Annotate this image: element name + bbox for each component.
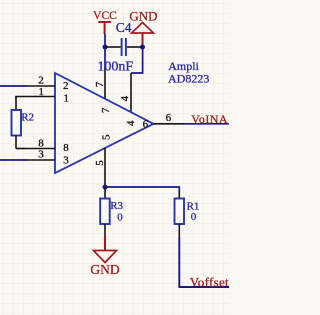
op-amp U1 pin 8	[27, 138, 69, 155]
svg-text:0: 0	[191, 211, 197, 223]
junction at GND / C4 right	[140, 45, 145, 50]
wire to pin 2	[0, 85, 27, 87]
svg-text:2: 2	[38, 74, 44, 86]
op-amp U1 pin 5	[94, 134, 113, 187]
svg-text:5: 5	[94, 160, 106, 166]
wire R1 to Voffset	[179, 238, 229, 288]
svg-text:7: 7	[94, 81, 106, 87]
svg-text:AD8223: AD8223	[168, 72, 209, 86]
svg-text:7: 7	[100, 107, 112, 113]
svg-text:Voffset: Voffset	[190, 275, 229, 290]
svg-text:3: 3	[38, 149, 44, 161]
op-amp U1 pin 1	[27, 86, 69, 105]
svg-text:0: 0	[117, 212, 123, 224]
svg-text:100nF: 100nF	[97, 60, 133, 75]
power port VCC	[93, 10, 117, 34]
svg-text:VCC: VCC	[93, 10, 117, 22]
svg-text:4: 4	[125, 120, 137, 126]
resistor R2	[12, 97, 22, 149]
wire to pin 3	[0, 159, 27, 161]
svg-text:3: 3	[63, 154, 69, 166]
svg-text:R2: R2	[21, 111, 34, 123]
junction pin 5 / R3 / R1	[103, 185, 108, 190]
svg-text:1: 1	[39, 86, 45, 98]
wire R2 to pin 8	[16, 148, 27, 150]
power port GND (top)	[129, 9, 157, 47]
power port GND (bottom)	[90, 237, 119, 278]
svg-text:6: 6	[143, 119, 149, 131]
op-amp U1 pin 2	[27, 74, 69, 92]
svg-text:2: 2	[63, 80, 69, 92]
svg-text:6: 6	[166, 112, 172, 124]
op-amp U1 pin 6	[143, 112, 185, 131]
resistor R1	[175, 191, 185, 238]
svg-text:VoINA: VoINA	[191, 112, 228, 126]
svg-text:1: 1	[64, 93, 70, 105]
svg-text:5: 5	[100, 134, 112, 140]
wire C4 right junction to pin 4	[131, 47, 143, 73]
wire pin 5 junction to R1	[105, 187, 179, 191]
svg-text:8: 8	[63, 142, 69, 154]
op-amp U1 pin 3	[27, 149, 69, 167]
svg-text:GND: GND	[90, 262, 119, 277]
junction at VCC / C4 left	[103, 45, 108, 50]
capacitor C4	[106, 38, 142, 56]
op-amp U1 pin 7	[94, 68, 112, 113]
wire pin 1 to R2	[16, 97, 27, 99]
svg-text:C4: C4	[116, 20, 132, 35]
svg-text:GND: GND	[129, 9, 157, 24]
wire output to VoINA	[185, 123, 230, 125]
resistor R3	[100, 187, 110, 238]
op-amp U1 (AD8223) triangle body	[55, 73, 154, 173]
svg-text:4: 4	[119, 95, 131, 101]
svg-text:R3: R3	[110, 200, 123, 212]
wire VCC stem to pin 7	[104, 34, 106, 69]
op-amp U1 pin 4	[119, 73, 137, 126]
